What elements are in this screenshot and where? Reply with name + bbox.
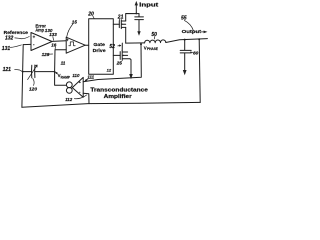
node dot input (135, 13, 137, 15)
ground arrow input cap (137, 31, 140, 36)
leader 120 (33, 78, 34, 85)
gate drive box 20 (89, 19, 114, 74)
wire feedback right vertical (199, 39, 200, 102)
transistor Q25 low-side mosfet (120, 51, 130, 61)
wire Q21 source to phase (125, 27, 127, 43)
wire comparator output (85, 44, 89, 46)
transconductance amplifier 110 triangle (72, 77, 83, 97)
svg-text:112: 112 (65, 97, 73, 102)
leader Vramp arrow (55, 72, 57, 74)
leader 132 (15, 37, 29, 39)
svg-text:121: 121 (3, 67, 12, 73)
leader 21 (118, 19, 120, 21)
svg-text:-: - (79, 89, 81, 94)
svg-text:RAMP: RAMP (61, 75, 71, 79)
svg-text:132: 132 (5, 36, 14, 42)
wire error amp output (52, 40, 66, 43)
svg-text:11: 11 (61, 60, 66, 65)
leader 121 (15, 69, 22, 71)
capacitor C120 plates (32, 65, 35, 78)
output arrow (201, 31, 205, 33)
node dot ramp (54, 71, 56, 73)
current source circle bottom (66, 88, 72, 94)
svg-text:Amp: Amp (35, 28, 44, 33)
input arrow (135, 4, 137, 14)
op-amp error amp 130 (31, 33, 52, 51)
svg-text:+: + (79, 80, 82, 85)
capacitor 120 variable arrow (28, 65, 38, 80)
pulse symbol (69, 42, 75, 46)
wire Q21 drain to input (126, 14, 139, 22)
svg-text:Transconductance: Transconductance (90, 87, 148, 93)
svg-text:111: 111 (87, 75, 94, 80)
svg-text:52: 52 (109, 44, 115, 50)
leader 55 (184, 20, 193, 30)
node dot phase (140, 43, 142, 45)
wire inductor to output (166, 39, 208, 43)
leader 50 (153, 36, 156, 39)
leader 20 (93, 16, 94, 19)
svg-text:Reference: Reference (4, 30, 29, 35)
svg-text:25: 25 (116, 60, 123, 66)
wire ramp input (55, 50, 67, 72)
leader 133 (52, 37, 55, 41)
svg-text:21: 21 (117, 15, 124, 21)
leader 111 arrow (85, 79, 88, 81)
svg-text:PHASE: PHASE (147, 47, 158, 51)
wire TA sense input to phase node (83, 44, 141, 81)
wire cap to ramp node (35, 71, 55, 73)
comparator 15 (66, 37, 85, 53)
label Vramp (58, 73, 71, 80)
wire high-side gate (113, 23, 119, 25)
wire node 121 (23, 71, 32, 73)
wire ramp node to current sources (55, 72, 67, 86)
ground arrow output cap (183, 70, 187, 75)
svg-text:-: - (33, 42, 35, 47)
svg-text:133: 133 (49, 32, 57, 37)
leader 128 (49, 53, 52, 55)
leader 16 (54, 47, 56, 49)
current source circle top (66, 82, 72, 88)
svg-text:15: 15 (72, 19, 78, 24)
svg-text:Input: Input (139, 3, 159, 9)
wire low-side gate (113, 54, 120, 56)
capacitor input bypass (135, 14, 144, 32)
leader 15 (67, 24, 73, 37)
wire bottom rail (22, 102, 200, 107)
capacitor C60 output (180, 40, 191, 70)
svg-text:Output: Output (182, 29, 202, 34)
wire phase node (126, 42, 145, 44)
leader 112 (74, 95, 86, 99)
svg-text:50: 50 (151, 32, 157, 38)
label Vphase (144, 45, 158, 51)
svg-text:60: 60 (193, 50, 199, 56)
wire feedback left vertical (22, 45, 23, 108)
svg-text:16: 16 (51, 42, 57, 47)
node dot feedback (198, 38, 200, 40)
Q21 body arrow (122, 23, 124, 25)
transistor Q21 high-side mosfet (119, 20, 125, 29)
node dot 121 (22, 71, 24, 73)
inductor L50 (145, 40, 166, 43)
ground arrow low-side (129, 74, 133, 79)
wire TA inverting input to bottom rail (83, 93, 89, 103)
wire Q25 source (130, 59, 131, 70)
Q25 body arrow (123, 55, 125, 57)
node dot output cap (184, 39, 186, 41)
svg-text:+: + (33, 34, 36, 39)
leader 52 arrow (118, 45, 121, 46)
svg-text:12: 12 (107, 68, 112, 73)
svg-text:Drive: Drive (93, 48, 106, 54)
svg-text:128: 128 (42, 52, 50, 57)
svg-text:120: 120 (29, 86, 37, 92)
svg-text:55: 55 (181, 16, 187, 22)
leader 60 (190, 51, 192, 53)
svg-text:Amplifier: Amplifier (104, 94, 132, 100)
wire Q25 drain to phase (121, 43, 123, 51)
svg-text:Gate: Gate (93, 42, 105, 48)
wire inverting input (23, 43, 31, 45)
svg-text:110: 110 (72, 73, 80, 78)
svg-text:131: 131 (2, 46, 11, 52)
leader 131 (10, 45, 21, 48)
